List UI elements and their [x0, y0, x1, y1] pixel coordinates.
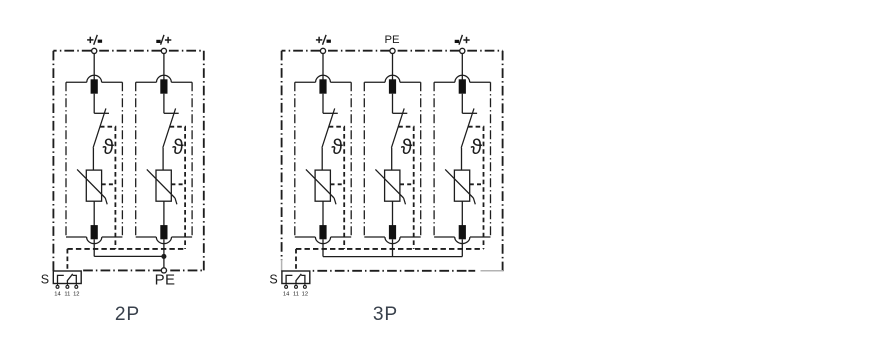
wire: switch to varistor (2P path2) [162, 148, 164, 171]
remote signalling contact S box (2P) [53, 271, 81, 284]
3P border gray bottom-right segment [481, 270, 503, 272]
plug-in contact arc bottom (3P path1) [315, 237, 330, 244]
wire: terminal to top disconnector (2P path1) [93, 54, 95, 81]
wire: switch to varistor (3P path2 PE) [391, 148, 393, 171]
contact 14 (3P) [286, 275, 292, 283]
wire: disconnector to switch (2P path1) [93, 94, 95, 114]
thermal link to varistor dashed (2P path1) [102, 183, 116, 185]
terminal label -/+ (3P L3) [455, 35, 470, 45]
thermal link dashed (3P path2 PE) [398, 127, 414, 249]
wire: terminal to top disconnector (3P path1) [322, 54, 324, 81]
terminal label +/- (3P L1) [316, 35, 331, 45]
terminal node (3P +/-) [320, 48, 325, 53]
disconnector element bottom (2P path2) [160, 225, 167, 239]
wire: varistor to bottom contact (3P path1) [322, 201, 324, 226]
thermal link dashed (2P path1) [100, 127, 116, 249]
thermal link to varistor dashed (3P path1) [331, 183, 345, 185]
wire: varistor to bottom contact (2P path1) [93, 201, 95, 226]
plug-in contact arc bottom (3P path3) [455, 237, 470, 244]
wire: 3P path1 bottom down [322, 239, 324, 256]
changeover blade 11 (3P) [296, 274, 301, 284]
contact 12 (3P) [301, 275, 305, 283]
plug-in contact arc top (2P path1) [87, 75, 102, 82]
2P device outer border bottom edge [81, 269, 204, 271]
thermal link dashed (3P path1) [329, 127, 345, 249]
thermal disconnect switch (3P path1) [322, 108, 338, 147]
svg-text:ϑ: ϑ [401, 136, 413, 159]
module box (3P path1) [295, 82, 351, 237]
svg-text:ϑ: ϑ [172, 136, 184, 159]
wire: disconnector to switch (2P path2) [163, 94, 165, 114]
thermal disconnect switch (2P path2) [163, 108, 179, 147]
svg-text:PE: PE [155, 272, 176, 289]
2P device outer border left edge [52, 51, 54, 271]
pin 12 (2P) [73, 284, 79, 298]
wire: switch to varistor (3P path1) [321, 148, 323, 171]
dashed link to remote contact (3P) [295, 249, 297, 271]
plug-in contact arc top (3P path1) [316, 75, 331, 82]
pin 11 (3P) [293, 284, 299, 298]
terminal label -/+ (2P L2) [156, 35, 171, 45]
thermal disconnect switch (3P path2 PE) [391, 108, 407, 147]
dashed link to remote contact (2P) [66, 249, 68, 271]
svg-text:11: 11 [64, 291, 70, 297]
varistor (2P path2) [147, 169, 177, 204]
thermal link to varistor dashed (2P path2) [171, 183, 185, 185]
3P device outer border right edge [502, 51, 504, 272]
svg-text:11: 11 [293, 291, 299, 297]
wire: terminal to top disconnector (3P path3) [461, 54, 463, 81]
svg-text:12: 12 [302, 291, 308, 297]
plug-in contact arc top (3P path3) [455, 75, 470, 82]
svg-text:14: 14 [54, 291, 61, 297]
thermal link to varistor dashed (3P path2 PE) [400, 183, 414, 185]
wire: 3P path3 bottom down [461, 239, 463, 256]
wire: disconnector to switch (3P path1) [322, 94, 324, 114]
terminal node (3P -/+) [460, 48, 465, 53]
thermal link to varistor dashed (3P path3) [470, 183, 484, 185]
plug-in contact arc bottom (2P path2) [156, 237, 171, 244]
wire: 3P common star point [323, 256, 462, 258]
contact 12 (2P) [73, 275, 77, 283]
pin 12 (3P) [302, 284, 308, 298]
3P device outer border left edge [281, 51, 283, 261]
svg-text:S: S [41, 273, 49, 287]
junction node (2P) [161, 254, 166, 259]
wire: terminal to top disconnector (2P path2) [163, 54, 165, 81]
plug-in contact arc bottom (3P path2 PE) [385, 237, 400, 244]
wire: switch to varistor (3P path3) [461, 148, 463, 171]
disconnector element bottom (3P path2 PE) [389, 225, 396, 239]
disconnector element bottom (3P path1) [319, 225, 326, 239]
disconnector element bottom (3P path3) [459, 225, 466, 239]
wire: 2P common bottom [94, 255, 164, 257]
svg-text:3P: 3P [373, 304, 398, 325]
wire: disconnector to switch (3P path3) [461, 94, 463, 114]
varistor (3P path1) [306, 169, 336, 204]
wire: 2P path2 to PE [163, 239, 165, 268]
contact 14 (2P) [58, 275, 64, 283]
thermal link common dashed line (3P) [296, 248, 484, 250]
wire: varistor to bottom contact (2P path2) [163, 201, 165, 226]
changeover blade 11 (2P) [67, 274, 72, 284]
svg-text:S: S [269, 273, 277, 287]
terminal node PE (2P) [161, 268, 166, 273]
module box (3P path3) [434, 82, 490, 237]
terminal label +/- (2P L1) [87, 35, 102, 45]
wire: varistor to bottom contact (3P path3) [461, 201, 463, 226]
thermal disconnector element top (2P path1) [91, 79, 98, 93]
pin 14 (2P) [54, 284, 61, 298]
plug-in contact arc bottom (2P path1) [87, 237, 102, 244]
svg-text:ϑ: ϑ [331, 136, 343, 159]
wire: 2P path1 bottom down [93, 239, 95, 256]
wire: disconnector to switch (3P path2 PE) [392, 94, 394, 114]
varistor (2P path1) [77, 169, 107, 204]
terminal node (3P PE) [390, 48, 395, 53]
wire: terminal to top disconnector (3P path2 PE) [392, 54, 394, 81]
svg-text:14: 14 [283, 291, 290, 297]
thermal disconnector element top (3P path1) [319, 79, 326, 93]
svg-text:2P: 2P [115, 304, 140, 325]
wire: varistor to bottom contact (3P path2 PE) [392, 201, 394, 226]
3P device outer border bottom edge [310, 270, 467, 272]
thermal disconnector element top (3P path2 PE) [389, 79, 396, 93]
thermal disconnect switch (2P path1) [93, 108, 109, 147]
terminal node (2P -/+) [161, 48, 166, 53]
thermal disconnect switch (3P path3) [461, 108, 477, 147]
module box (2P path1) [66, 82, 122, 237]
thermal disconnector element top (3P path3) [459, 79, 466, 93]
svg-text:12: 12 [73, 291, 79, 297]
thermal disconnector element top (2P path2) [160, 79, 167, 93]
2P device outer border top edge [53, 50, 203, 52]
terminal node (2P +/-) [92, 48, 97, 53]
wire: switch to varistor (2P path1) [92, 148, 94, 171]
3P border bottom edge short dash [468, 270, 475, 272]
thermal link common dashed line (2P) [67, 248, 185, 250]
remote signalling contact S box (3P) [282, 271, 310, 284]
svg-text:ϑ: ϑ [103, 136, 115, 159]
varistor (3P path3) [445, 169, 475, 204]
module box (3P path2 PE) [364, 82, 420, 237]
pin 14 (3P) [283, 284, 290, 298]
thermal link dashed (3P path3) [468, 127, 484, 249]
3P device outer border top edge [282, 50, 503, 52]
plug-in contact arc top (2P path2) [157, 75, 172, 82]
2P device outer border right edge [203, 51, 205, 271]
varistor (3P path2 PE) [375, 169, 405, 204]
svg-text:ϑ: ϑ [471, 136, 483, 159]
3P border gray left segment [281, 261, 283, 271]
disconnector element bottom (2P path1) [91, 225, 98, 239]
svg-text:PE: PE [384, 34, 400, 46]
plug-in contact arc top (3P path2 PE) [385, 75, 400, 82]
pin 11 (2P) [64, 284, 70, 298]
wire: 3P path2 bottom down [392, 239, 394, 256]
module box (2P path2) [136, 82, 192, 237]
thermal link dashed (2P path2) [170, 127, 186, 249]
